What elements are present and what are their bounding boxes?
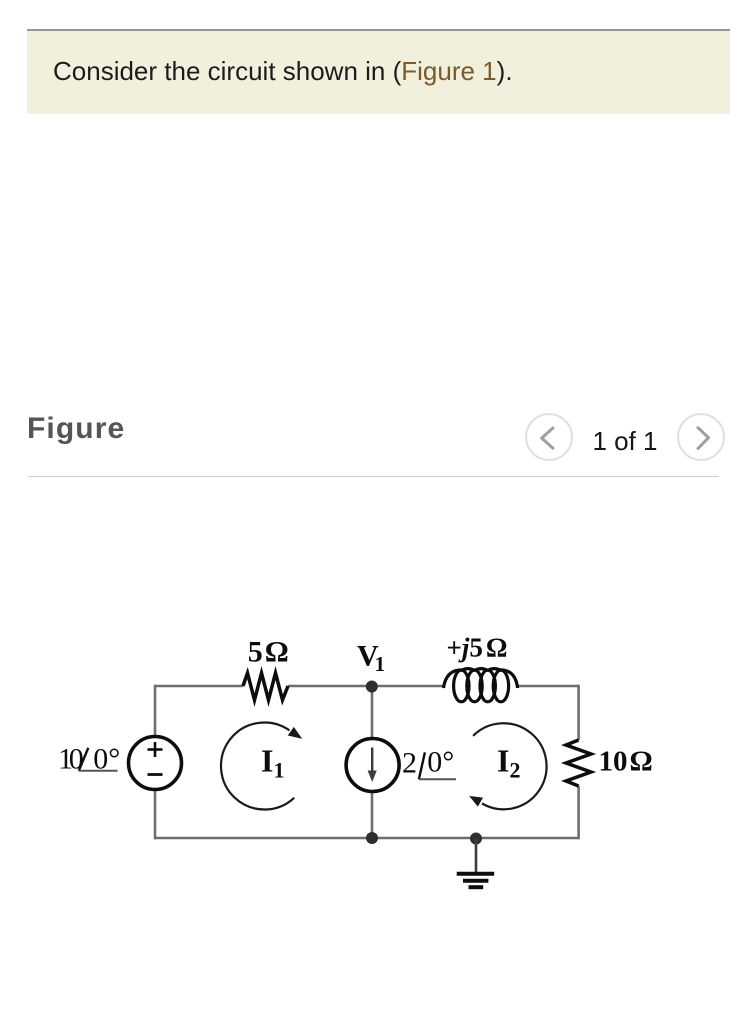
wire right branch upper [577, 685, 580, 740]
prev page button [525, 413, 573, 461]
circuit figure [0, 600, 748, 930]
wire bottom [155, 837, 579, 840]
mesh current arrow I2 [473, 723, 546, 809]
resistor R 10ohm [566, 740, 591, 786]
wire middle branch upper [371, 686, 374, 739]
svg-text:2: 2 [402, 746, 417, 779]
svg-text:0°: 0° [427, 746, 454, 779]
source value label 2/0deg [402, 746, 454, 780]
wire middle branch lower [371, 791, 374, 838]
svg-text:I2: I2 [497, 743, 520, 783]
page count [585, 426, 665, 457]
svg-text:+j5Ω: +j5Ω [447, 633, 508, 663]
voltage source minus sign [148, 773, 163, 776]
angle symbol of 2/0deg [419, 752, 456, 779]
mesh arrow I2 head [470, 797, 482, 806]
wire top-right segment [518, 685, 579, 688]
wire left branch upper [154, 685, 157, 737]
separator rule [28, 476, 719, 477]
wire top-left segment [155, 685, 243, 688]
node V1 dot [366, 681, 378, 693]
inductor L +j5ohm [444, 669, 518, 702]
voltage source plus sign [148, 742, 163, 757]
ground node dot [470, 833, 482, 845]
wire left branch lower [154, 789, 157, 839]
mesh current arrow I1 [221, 723, 294, 810]
svg-text:5Ω: 5Ω [248, 636, 289, 669]
source value label 10/0deg [58, 743, 120, 776]
wire top-middle segment [288, 685, 444, 688]
svg-text:V1: V1 [357, 640, 385, 677]
angle symbol of 10/0deg [79, 748, 118, 771]
next page button [677, 413, 725, 461]
task instruction box [27, 29, 730, 114]
svg-text:10Ω: 10Ω [599, 746, 653, 778]
current source CS circle [346, 739, 399, 792]
Figure heading [27, 412, 125, 446]
ground stub wire [475, 839, 478, 873]
mesh arrow I1 head [289, 728, 301, 738]
svg-text:I1: I1 [261, 743, 284, 783]
resistor R 5ohm [243, 673, 288, 700]
current source arrow [368, 748, 377, 783]
voltage source VS circle [129, 737, 182, 790]
bottom junction node dot [366, 832, 378, 844]
wire right branch lower [577, 786, 580, 839]
ground symbol [457, 874, 495, 887]
